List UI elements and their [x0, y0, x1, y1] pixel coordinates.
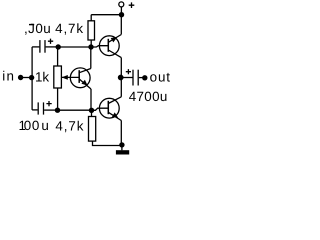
wire pot bottom node to node C	[58, 109, 92, 111]
svg-text:in: in	[2, 69, 15, 84]
transistor Q3 circle	[99, 98, 119, 118]
svg-text:4700u: 4700u	[129, 89, 168, 104]
wire supply stem	[120, 7, 122, 15]
wire node C to R2	[91, 110, 93, 116]
transistor Q2 emitter diagonal	[79, 79, 91, 89]
wire C1 right plate to node A	[46, 46, 58, 48]
wire R1 bottom to node B	[90, 40, 92, 47]
wire input to junction	[21, 77, 32, 79]
svg-text:,J0u: ,J0u	[24, 21, 51, 36]
transistor Q1 base bar	[107, 39, 109, 52]
wire rail Q1 collector to out node	[120, 58, 122, 78]
wire pot top lead	[57, 47, 59, 66]
transistor Q3 emitter diagonal down	[108, 112, 121, 120]
node ground junction	[119, 142, 124, 147]
svg-text:4,7k: 4,7k	[55, 119, 84, 134]
node pot bottom junction	[55, 108, 60, 113]
wire rail out node to Q3 collector	[120, 78, 122, 97]
wiper arrow of P1	[61, 76, 79, 78]
transistor Q1 collector diagonal down	[108, 50, 121, 58]
arrow Q1 emitter	[111, 37, 118, 42]
node A junction	[56, 44, 61, 49]
wire Q2 emitter down to node C	[90, 89, 92, 110]
out terminal dot	[142, 75, 147, 80]
wire R2 bottom to ground node	[93, 141, 122, 145]
transistor Q1 emitter diagonal up	[108, 35, 121, 43]
node B junction	[88, 44, 93, 49]
capacitor C1 left plate	[39, 40, 41, 53]
node out rail junction	[118, 75, 124, 81]
wire rail corner down to R1	[90, 15, 92, 21]
svg-text:out: out	[150, 69, 171, 84]
supply terminal +	[119, 2, 124, 7]
label C3 polarity +	[126, 69, 131, 74]
capacitor C3 left plate	[132, 70, 134, 86]
label C2 polarity +	[46, 101, 51, 106]
ground symbol	[116, 150, 129, 154]
transistor Q1 circle	[99, 36, 119, 56]
wire C3 right plate to out terminal	[139, 77, 145, 79]
wire Q3 emitter down to ground node	[120, 121, 122, 145]
transistor Q2 base bar	[78, 70, 80, 83]
input terminal dot	[18, 75, 23, 80]
wire node B left to node A	[58, 46, 91, 48]
wire out node to C3	[121, 77, 133, 79]
capacitor C3 right plate	[137, 70, 139, 86]
transistor Q2 driver circle	[70, 68, 90, 88]
wire node B to Q1 base	[91, 46, 108, 47]
transistor Q3 collector diagonal up	[108, 97, 121, 104]
svg-text:100u: 100u	[19, 118, 49, 133]
wire top rail	[91, 14, 121, 16]
capacitor C2 left plate	[37, 102, 39, 114]
transistor Q3 base bar	[107, 101, 109, 114]
wire pot bottom lead	[57, 88, 59, 110]
wire ground stem	[121, 145, 123, 150]
resistor R2 4,7k bottom	[89, 117, 96, 142]
resistor R1 4,7k top	[88, 21, 95, 40]
wire input vertical	[31, 47, 33, 110]
potentiometer P1 body	[54, 66, 62, 88]
wire Q2 collector up to node B	[90, 47, 92, 69]
svg-text:4,7k: 4,7k	[55, 21, 84, 36]
capacitor C2 right plate	[43, 102, 45, 114]
wire input corner to C2	[32, 109, 37, 111]
label C1 polarity +	[48, 39, 53, 44]
node C junction	[89, 108, 94, 113]
wire node C to Q3 base	[92, 108, 109, 110]
capacitor C1 right plate	[44, 40, 46, 53]
node input junction	[29, 75, 34, 80]
svg-text:1k: 1k	[35, 70, 49, 85]
arrow Q3 emitter	[112, 112, 118, 117]
wire rail Q1 emitter to supply node	[120, 15, 122, 35]
wire C2 right plate to pot bottom node	[44, 109, 57, 111]
arrow Q2 emitter	[81, 80, 87, 86]
label +	[129, 2, 135, 8]
label C1 value ,J0u	[24, 21, 51, 36]
wire C1 left plate to input corner	[32, 46, 39, 48]
node supply junction	[119, 12, 124, 17]
transistor Q2 collector diagonal	[79, 69, 91, 73]
